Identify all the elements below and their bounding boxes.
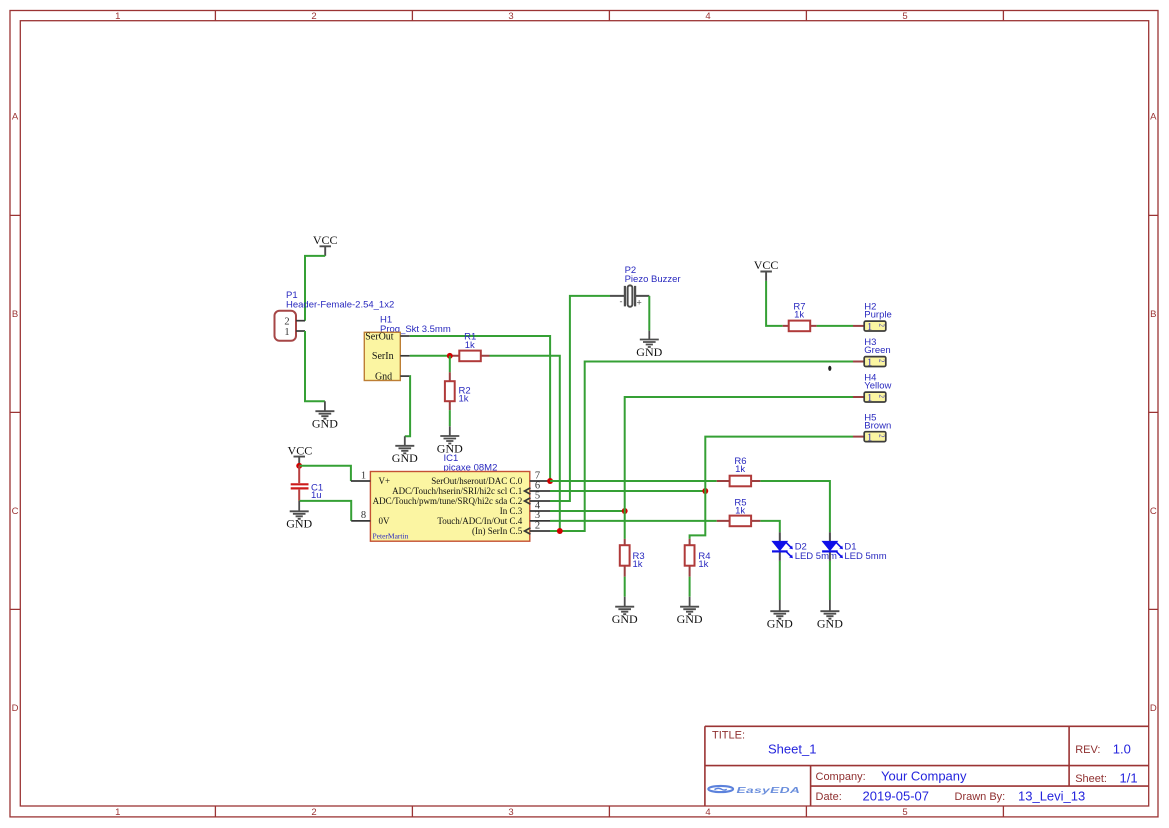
wire VCC to R7: [766, 281, 783, 326]
svg-text:A: A: [12, 112, 19, 123]
pin 1 stub: [296, 330, 305, 332]
svg-text:1: 1: [115, 807, 120, 818]
resistor R6 1k: [717, 456, 761, 486]
pin SerIn stub: [400, 355, 410, 357]
IC IC1 picaxe 08M2: [351, 453, 550, 541]
svg-text:2: 2: [311, 807, 316, 818]
wire VCC to P1 pin 2: [305, 256, 325, 321]
connector H3 Green: [853, 337, 891, 368]
svg-text:GND: GND: [312, 417, 338, 431]
svg-text:Drawn By:: Drawn By:: [955, 791, 1006, 803]
svg-text:Sheet_1: Sheet_1: [768, 741, 816, 756]
junction at pin 6 / R4 / H5: [702, 488, 708, 494]
svg-text:4: 4: [705, 11, 710, 22]
wire pin 2 to H3: [550, 362, 853, 532]
svg-text:ADC/Touch/hserin/SRI/hi2c scl: ADC/Touch/hserin/SRI/hi2c scl C.1: [392, 486, 522, 496]
junction at IC1 pin 7 / SerOut / R6: [547, 478, 553, 484]
ground GND (below buzzer): [636, 331, 662, 359]
resistor R2 1k: [445, 372, 471, 410]
wire P1 pin 1 to GND: [305, 331, 325, 401]
svg-text:0V: 0V: [379, 516, 391, 526]
svg-text:Piezo Buzzer: Piezo Buzzer: [625, 274, 681, 285]
wire pin 7 to R6: [550, 480, 717, 482]
resistor R5 1k: [717, 498, 761, 527]
wire pin 3 to R5: [550, 520, 717, 522]
svg-text:1u: 1u: [311, 490, 322, 501]
wire R4 to GND: [689, 577, 691, 597]
svg-text:2: 2: [284, 317, 289, 328]
resistor R7 1k: [783, 301, 817, 331]
pin SerOut stub: [400, 335, 410, 337]
wire junction down to R3: [624, 511, 626, 539]
svg-text:1: 1: [361, 470, 366, 481]
wire VCC junction to IC1 pin 1: [299, 466, 351, 481]
wire pin 6 to R4/H5 junction: [550, 490, 705, 492]
ground GND (below P1): [312, 401, 338, 430]
wire junction to R2: [449, 356, 451, 373]
wire D2 to GND: [779, 561, 781, 600]
input arrow pin 2: [525, 528, 531, 534]
svg-text:LED 5mm: LED 5mm: [844, 551, 886, 562]
ground GND (below C1): [286, 501, 312, 531]
resistor R4 1k: [685, 539, 711, 577]
svg-text:GND: GND: [636, 345, 662, 359]
wire R2 to GND: [449, 410, 451, 426]
svg-text:VCC: VCC: [754, 258, 779, 272]
svg-text:GND: GND: [767, 617, 793, 631]
svg-text:PeterMartin: PeterMartin: [373, 532, 409, 541]
buzzer P2 Piezo Buzzer: [610, 265, 681, 308]
svg-text:4: 4: [705, 807, 710, 818]
svg-text:V+: V+: [379, 476, 391, 486]
pin 7 stub: [530, 480, 550, 482]
svg-text:Sheet:: Sheet:: [1075, 773, 1107, 785]
svg-text:D: D: [12, 703, 19, 714]
connector H1 Prog_Skt 3.5mm: [364, 315, 451, 383]
svg-text:13_Levi_13: 13_Levi_13: [1018, 788, 1085, 803]
pin 2 stub: [296, 320, 305, 322]
svg-text:GND: GND: [392, 451, 418, 465]
capacitor C1 1u: [291, 466, 323, 501]
wire junction up to H4: [625, 397, 853, 511]
svg-text:C: C: [1150, 506, 1157, 517]
svg-text:Green: Green: [864, 345, 890, 356]
svg-text:Purple: Purple: [864, 310, 891, 321]
svg-text:GND: GND: [677, 612, 703, 626]
svg-text:2: 2: [311, 11, 316, 22]
svg-text:Touch/ADC/In/Out C.4: Touch/ADC/In/Out C.4: [437, 516, 522, 526]
svg-text:REV:: REV:: [1075, 744, 1100, 756]
svg-text:ADC/Touch/pwm/tune/SRQ/hi2c sd: ADC/Touch/pwm/tune/SRQ/hi2c sda C.2: [373, 496, 523, 506]
input arrow pin 5: [525, 498, 531, 504]
ground GND (below H1 Gnd): [392, 436, 418, 465]
svg-text:EasyEDA: EasyEDA: [737, 786, 801, 795]
svg-text:1: 1: [284, 327, 289, 338]
connector H2 Purple: [853, 301, 892, 332]
wire junction down to R4: [690, 491, 706, 539]
svg-text:SerOut: SerOut: [365, 331, 394, 342]
svg-text:+: +: [637, 298, 642, 308]
svg-text:GND: GND: [286, 517, 312, 531]
pin 3 stub: [530, 520, 550, 522]
svg-text:B: B: [12, 309, 18, 320]
svg-text:(In) SerIn C.5: (In) SerIn C.5: [472, 526, 523, 536]
svg-text:SerIn: SerIn: [372, 351, 394, 362]
power flag VCC (top left, net VCC): [313, 233, 338, 256]
ground GND (below D1): [817, 600, 843, 631]
svg-text:5: 5: [902, 807, 907, 818]
pin 1 stub: [351, 480, 371, 482]
svg-text:5: 5: [902, 11, 907, 22]
svg-text:1.0: 1.0: [1113, 741, 1131, 756]
wire R6 to D1: [760, 481, 830, 532]
wire H1 SerOut to IC1 pin 7 (net SerOut): [410, 336, 550, 481]
svg-text:1k: 1k: [794, 309, 804, 320]
wire R3 to GND: [624, 577, 626, 597]
junction at pin 4 / R3 / H4: [622, 508, 628, 514]
svg-text:Gnd: Gnd: [375, 371, 392, 382]
svg-text:TITLE:: TITLE:: [712, 730, 745, 742]
pin 8 stub: [351, 520, 370, 522]
TITLEBLOCK: [705, 726, 1149, 806]
pin 5 stub: [530, 500, 550, 502]
svg-text:Your Company: Your Company: [881, 768, 967, 783]
svg-text:3: 3: [508, 807, 513, 818]
resistor R1 1k: [450, 331, 490, 361]
svg-text:2: 2: [878, 324, 886, 328]
svg-text:1k: 1k: [459, 393, 469, 404]
svg-text:1k: 1k: [735, 464, 745, 475]
svg-text:C: C: [12, 506, 19, 517]
wire pin 4 to R3/H4 junction: [550, 510, 625, 512]
wire buzzer to GND: [648, 296, 650, 331]
wire H1 Gnd to GND: [405, 376, 410, 436]
svg-text:VCC: VCC: [313, 233, 338, 247]
input arrow pin 6: [525, 488, 531, 494]
svg-text:Company:: Company:: [816, 771, 866, 783]
svg-text:A: A: [1150, 112, 1157, 123]
svg-text:1: 1: [867, 357, 872, 368]
svg-text:1k: 1k: [465, 340, 475, 351]
wire junction up to H5: [705, 437, 853, 491]
pin 4 stub: [530, 510, 550, 512]
svg-text:VCC: VCC: [288, 443, 313, 457]
LED D2 LED 5mm: [771, 532, 837, 562]
svg-text:2: 2: [878, 434, 886, 438]
ground GND (below R3): [612, 597, 638, 627]
EasyEDA logo: [708, 786, 800, 795]
svg-text:1k: 1k: [633, 559, 643, 570]
junction at R1/R2/SerIn: [447, 353, 453, 359]
svg-text:In C.3: In C.3: [500, 506, 523, 516]
svg-text:1: 1: [867, 322, 872, 333]
connector H4 Yellow: [853, 372, 892, 404]
connector P1 Header-Female-2.54_1x2: [275, 290, 395, 341]
ground GND (below R4): [677, 597, 703, 627]
pin 6 stub: [530, 490, 550, 492]
svg-text:1/1: 1/1: [1120, 771, 1138, 786]
wire R5 to D2: [760, 521, 779, 532]
wire pin 5 to buzzer: [550, 296, 610, 501]
wire R1 to IC1 pin 2 (net SerIn): [490, 356, 560, 531]
wire C1 to IC1 pin 8: [299, 501, 351, 521]
power flag VCC (above C1): [288, 443, 313, 463]
svg-text:Brown: Brown: [864, 421, 891, 432]
pin Gnd stub: [400, 375, 410, 377]
ground GND (below R2): [437, 426, 463, 455]
wire H1 SerIn to R1 junction: [410, 355, 450, 357]
power flag VCC (above R7): [754, 258, 779, 281]
junction at VCC/C1/IC1 pin 1: [296, 463, 302, 469]
svg-text:1: 1: [867, 432, 872, 443]
connector H5 Brown: [853, 412, 891, 443]
svg-text:8: 8: [361, 510, 366, 521]
wire R7 to H2: [817, 325, 853, 327]
svg-text:2: 2: [878, 395, 886, 399]
svg-text:GND: GND: [612, 612, 638, 626]
svg-text:D: D: [1150, 703, 1157, 714]
ground GND (below D2): [767, 600, 793, 631]
svg-text:Header-Female-2.54_1x2: Header-Female-2.54_1x2: [286, 300, 394, 311]
resistor R3 1k: [620, 539, 645, 577]
svg-text:2019-05-07: 2019-05-07: [863, 788, 930, 803]
svg-text:1: 1: [115, 11, 120, 22]
junction at pin 2 / R1: [557, 528, 563, 534]
svg-text:1: 1: [867, 393, 872, 404]
svg-text:GND: GND: [817, 617, 843, 631]
wire D1 to GND: [829, 561, 831, 600]
svg-text:SerOut/hserout/DAC C.0: SerOut/hserout/DAC C.0: [431, 476, 522, 486]
LED D1 LED 5mm: [822, 532, 887, 562]
svg-text:-: -: [620, 297, 623, 307]
svg-text:2: 2: [878, 359, 886, 363]
svg-text:1k: 1k: [698, 559, 708, 570]
svg-text:2: 2: [535, 520, 540, 531]
svg-text:B: B: [1150, 309, 1156, 320]
pin 2 stub: [530, 530, 550, 532]
stray mark: [828, 366, 831, 371]
svg-text:Date:: Date:: [816, 791, 842, 803]
svg-text:3: 3: [508, 11, 513, 22]
svg-text:Yellow: Yellow: [864, 381, 891, 392]
